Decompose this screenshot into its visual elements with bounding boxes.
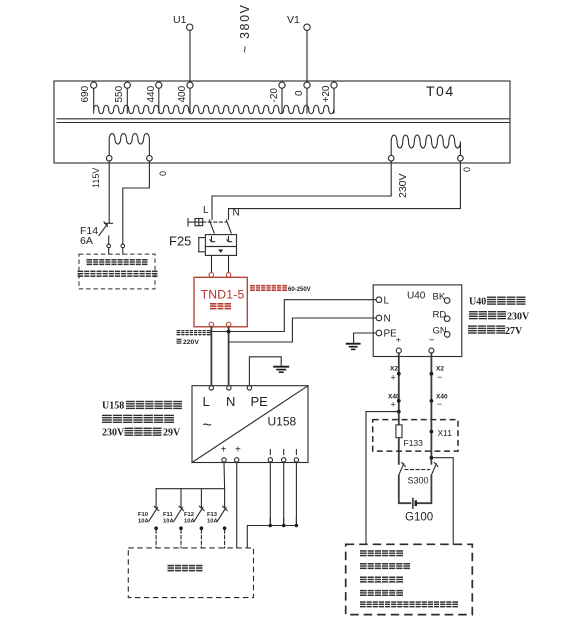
svg-text:U158: U158 [102,401,124,412]
circuits text line2 (engine control circuit) [360,563,410,569]
svg-text:400: 400 [177,85,188,102]
svg-text:F10: F10 [138,512,148,518]
svg-text:27V: 27V [505,326,523,337]
svg-text:+: + [396,335,402,346]
fuse drop F11 [180,489,182,508]
relay box text line2 [78,271,158,277]
svg-text:10A: 10A [207,518,218,524]
U40 note text [468,297,530,337]
svg-text:U40: U40 [407,291,426,302]
tap +20 [321,82,337,113]
wire into relay box [108,248,110,254]
svg-text:10A: 10A [138,518,149,524]
wire + branch down to circuits box [366,412,399,545]
svg-text:G100: G100 [405,512,433,524]
char gaps overlay [84,259,516,608]
svg-text:10A: 10A [163,518,174,524]
branch wire to U40 N [229,318,377,342]
black note: stabilizer output 220V [177,330,211,346]
switch F12 10A [184,506,204,548]
svg-text:F11: F11 [163,512,173,518]
svg-text:L: L [203,205,209,216]
node at relay box input 2 [121,244,125,248]
stabilizer output N wire to U158 [228,327,230,386]
branch wire to U40 L [211,300,376,332]
breaker F25 [169,219,237,256]
junction + branch to circuits box [397,410,401,414]
svg-text:230V: 230V [102,427,125,438]
svg-text:L: L [203,394,210,409]
svg-text:F12: F12 [184,512,194,518]
wire 0-tap to relay box [123,161,150,244]
svg-text:U1: U1 [173,14,187,26]
transformer T04 body [54,81,510,163]
svg-text:F133: F133 [404,438,424,448]
svg-text:29V: 29V [163,427,181,438]
connector X40 + [388,393,401,409]
svg-text:X11: X11 [438,428,453,438]
secondary winding 230V [388,135,463,161]
svg-text:BK: BK [433,292,446,303]
svg-text:0: 0 [158,171,168,176]
connector box X11 [373,420,458,452]
svg-text:F25: F25 [169,234,191,249]
svg-text:+: + [391,373,396,383]
svg-text:N: N [384,314,391,325]
terminal U1 [173,14,193,30]
svg-text:S300: S300 [408,476,429,486]
connector X2 - [430,366,445,383]
svg-text:N: N [226,394,235,409]
svg-text:X2: X2 [390,366,398,373]
transformer core [57,119,509,123]
tap 440 [146,82,162,113]
circuits text line1 (wiper supply circuit) [360,550,403,556]
circuits text line3 (chassis control circuit) [360,577,403,583]
svg-text:+: + [235,445,241,456]
junction on N wire [227,330,231,334]
svg-text:PE: PE [251,394,269,409]
switch F10 10A [138,506,159,548]
wires F25 to stabilizer [211,255,213,272]
svg-text:V1: V1 [287,14,300,26]
U158 + wire and lamp fuse bus [156,462,225,489]
svg-text:TND1-5: TND1-5 [201,288,245,302]
battery G100 [399,476,433,524]
fuse F133 [396,425,423,448]
U158 note text [102,401,182,439]
svg-text:T04: T04 [426,83,455,99]
svg-text:10A: 10A [184,518,195,524]
wire V1 to tap 0 [306,30,308,82]
U40 + output wire [398,353,400,464]
switch F14 6A [80,222,113,247]
tap 400 [177,82,193,113]
work lamps dashed box [128,548,253,598]
switch S300 [399,463,439,486]
charger U40 [373,285,462,357]
connector X2 + [390,366,401,383]
svg-text:230V: 230V [507,312,530,323]
svg-text:N: N [233,208,240,219]
switch F11 10A [163,506,184,548]
tap 0 [294,82,310,113]
voltage stabilizer TND1-5 [194,273,247,327]
svg-text:6A: 6A [80,235,93,247]
terminal V1 [287,14,310,30]
svg-text:440: 440 [146,85,157,102]
connector X40 - [430,393,448,409]
U158 minus bus wires [247,462,298,548]
U158 second + wire to lamp box [236,462,238,548]
wire L feed from 230V [212,161,391,220]
fuse drop F13 [224,489,226,508]
svg-text:−: − [437,399,442,409]
svg-text:L: L [384,296,390,307]
svg-text:0: 0 [462,167,472,172]
fuse drop F12 [200,489,202,508]
switch F13 10A [207,506,227,548]
svg-text:-20: -20 [269,88,280,103]
svg-text:~ 380V: ~ 380V [238,3,252,53]
svg-text:+: + [221,445,227,456]
circuits text line4 (sensors circuit) [360,590,403,596]
svg-text:0: 0 [294,90,305,96]
ground at U158 PE [249,357,289,386]
svg-text:−: − [429,335,435,346]
circuits dashed box [346,544,473,614]
primary winding [94,105,334,114]
svg-text:550: 550 [114,85,125,102]
svg-text:−: − [437,372,442,382]
tap -20 [269,82,285,113]
relay box text line1 [87,259,148,265]
wire 115V to F14 [108,161,110,223]
ground at U40 PE [346,333,376,349]
svg-text:+20: +20 [321,85,332,102]
relay dashed box (main oil pump motor control relays) [79,254,155,289]
wire U1 to tap 400 [189,30,191,82]
tap 690 [80,82,97,113]
circuits text line5 (cab, outrigger, cable reel e-stop circuit) [360,601,458,607]
junction - branch below X11 [430,456,434,460]
svg-text:+: + [391,400,396,410]
tap 550 [114,82,130,113]
wire N feed from 230V [229,161,461,220]
wire - branch to circuits box [431,458,453,545]
fuse drop F10 [155,489,157,508]
wire stub into relay box [122,248,124,254]
svg-text:~: ~ [203,417,212,434]
node at relay box input 1 [107,244,111,248]
red note: stabilizer range 60-250V [250,285,311,293]
secondary winding 115V [106,134,152,161]
svg-text:230V: 230V [397,173,409,198]
stabilizer output L wire to U158 [210,327,212,386]
svg-text:U40: U40 [469,297,486,308]
U40 - output wire [430,353,432,464]
svg-text:F13: F13 [207,512,218,518]
svg-text:220V: 220V [183,339,199,346]
svg-text:690: 690 [80,85,91,102]
svg-text:U158: U158 [268,415,297,429]
svg-text:115V: 115V [91,168,101,188]
svg-text:60-250V: 60-250V [288,287,311,293]
rectifier U158 [192,386,308,463]
